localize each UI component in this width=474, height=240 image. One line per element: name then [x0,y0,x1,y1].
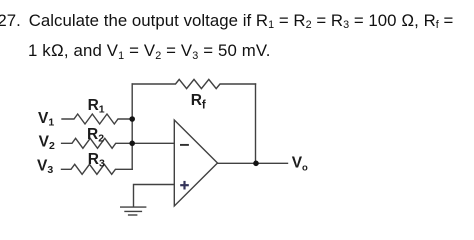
svg-text:Rf: Rf [191,92,206,112]
svg-text:R3: R3 [88,151,105,170]
svg-text:R1: R1 [88,97,105,116]
svg-text:V3: V3 [37,158,53,177]
svg-text:V2: V2 [39,133,55,152]
svg-text:V1: V1 [38,110,54,128]
svg-text:Vo: Vo [292,155,308,174]
svg-text:R2: R2 [87,126,104,145]
